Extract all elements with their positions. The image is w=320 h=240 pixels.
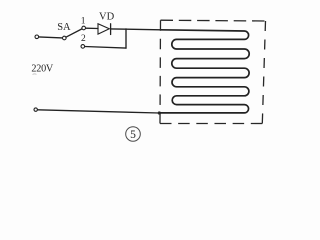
diode VD triangle bbox=[98, 24, 109, 34]
dashed enclosure box of heater bbox=[160, 20, 266, 123]
dashed box left edge bbox=[159, 20, 162, 123]
dashed box bottom edge bbox=[160, 123, 262, 125]
terminal: bottom-left supply terminal bbox=[34, 108, 37, 111]
heating element R (serpentine) bbox=[159, 30, 249, 113]
svg-text:220V: 220V bbox=[31, 63, 54, 74]
diode VD cathode bar bbox=[110, 24, 112, 35]
wire: contact 1 to diode anode bbox=[86, 27, 98, 29]
junction: bottom wire entering box bbox=[158, 111, 161, 114]
squiggle under 220V bbox=[33, 73, 37, 76]
wire: bypass vertical up to node bbox=[125, 29, 127, 48]
terminal: top-left supply terminal bbox=[35, 35, 39, 39]
dashed box right edge bbox=[262, 21, 265, 124]
switch contact 1 bbox=[82, 26, 86, 30]
svg-text:VD: VD bbox=[99, 11, 115, 22]
svg-text:1: 1 bbox=[81, 17, 86, 27]
svg-text:2: 2 bbox=[81, 34, 86, 44]
wire: contact 2 bypass horizontal bbox=[85, 47, 126, 49]
wire: left top terminal to switch pivot bbox=[39, 37, 63, 38]
wire: diode cathode to heater box (row 1 feed) bbox=[111, 28, 161, 31]
svg-text:5: 5 bbox=[130, 129, 136, 141]
switch contact 2 bbox=[81, 45, 85, 49]
wire: bottom supply wire to heater box bbox=[38, 110, 160, 113]
dashed box top edge bbox=[161, 19, 266, 22]
figure number circle 5 bbox=[126, 127, 141, 142]
svg-text:SA: SA bbox=[57, 22, 71, 33]
switch SA blade bbox=[66, 29, 82, 37]
switch SA pivot terminal bbox=[63, 36, 67, 40]
